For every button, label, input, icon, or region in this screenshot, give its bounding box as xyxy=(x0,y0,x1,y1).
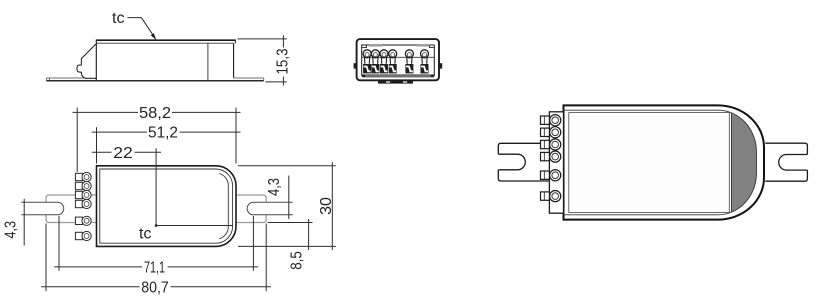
top view terminals xyxy=(75,172,91,240)
left tab slot xyxy=(21,202,64,215)
top view body outer xyxy=(97,166,237,247)
body right view inner line xyxy=(564,110,757,215)
connector inner frame bottom band xyxy=(362,75,434,78)
side view wedge front xyxy=(77,44,96,78)
top view cap second arc xyxy=(219,174,228,239)
svg-text:15,3: 15,3 xyxy=(275,48,292,74)
top view body inner line xyxy=(100,169,233,243)
svg-text:58,2: 58,2 xyxy=(139,105,171,122)
dimension 30 xyxy=(238,162,336,250)
left mounting tab xyxy=(46,195,266,223)
right tab slot xyxy=(247,202,293,215)
gray crescent xyxy=(732,113,757,213)
dimension 4,3 left xyxy=(23,199,25,246)
svg-text:8,5: 8,5 xyxy=(289,251,306,270)
side view lid top xyxy=(96,39,236,41)
dimension 22 xyxy=(92,151,161,153)
side view base bottom line xyxy=(46,80,263,82)
connector terminals front xyxy=(363,50,428,74)
svg-text:22: 22 xyxy=(113,145,133,162)
side view box outline xyxy=(96,41,235,80)
label right edge double line xyxy=(731,113,733,212)
side view lid seam xyxy=(207,43,209,80)
connector side nub right xyxy=(439,63,442,68)
dimension 58,2 xyxy=(73,108,241,173)
label area right view xyxy=(569,113,730,213)
side view base plate xyxy=(46,78,263,81)
dimension 8,5 xyxy=(268,219,313,250)
terminals right view xyxy=(541,115,561,202)
svg-text:51,2: 51,2 xyxy=(148,125,178,142)
connector outer shell xyxy=(357,39,439,80)
svg-text:4,3: 4,3 xyxy=(3,221,20,239)
connector inner frame xyxy=(362,45,435,76)
left tab slot right view xyxy=(498,154,525,170)
svg-text:71,1: 71,1 xyxy=(144,259,165,276)
connector mid line xyxy=(362,56,435,58)
svg-text:tc: tc xyxy=(112,10,124,27)
terminal panel right view xyxy=(549,112,563,213)
right tab slot right view xyxy=(779,155,808,171)
svg-text:30: 30 xyxy=(318,197,335,215)
dimension 71,1 xyxy=(54,216,258,271)
left tab right view xyxy=(498,143,549,181)
right tab right view xyxy=(765,143,807,181)
connector top lip bars xyxy=(369,44,430,46)
svg-text:4,3: 4,3 xyxy=(266,178,283,196)
svg-text:tc: tc xyxy=(139,226,151,243)
dimension 80,7 xyxy=(41,224,271,292)
connector bottom latch xyxy=(378,80,413,83)
dimension 15,3 xyxy=(238,35,287,85)
svg-text:80,7: 80,7 xyxy=(141,279,169,296)
body right view outer xyxy=(564,105,765,219)
tc point marker xyxy=(155,224,158,227)
dimension 51,2 xyxy=(92,127,241,163)
connector top corner notches xyxy=(362,45,366,47)
connector side nub left xyxy=(354,63,357,68)
dimension 4,3 right xyxy=(288,176,290,220)
tc leader side view xyxy=(128,18,154,37)
